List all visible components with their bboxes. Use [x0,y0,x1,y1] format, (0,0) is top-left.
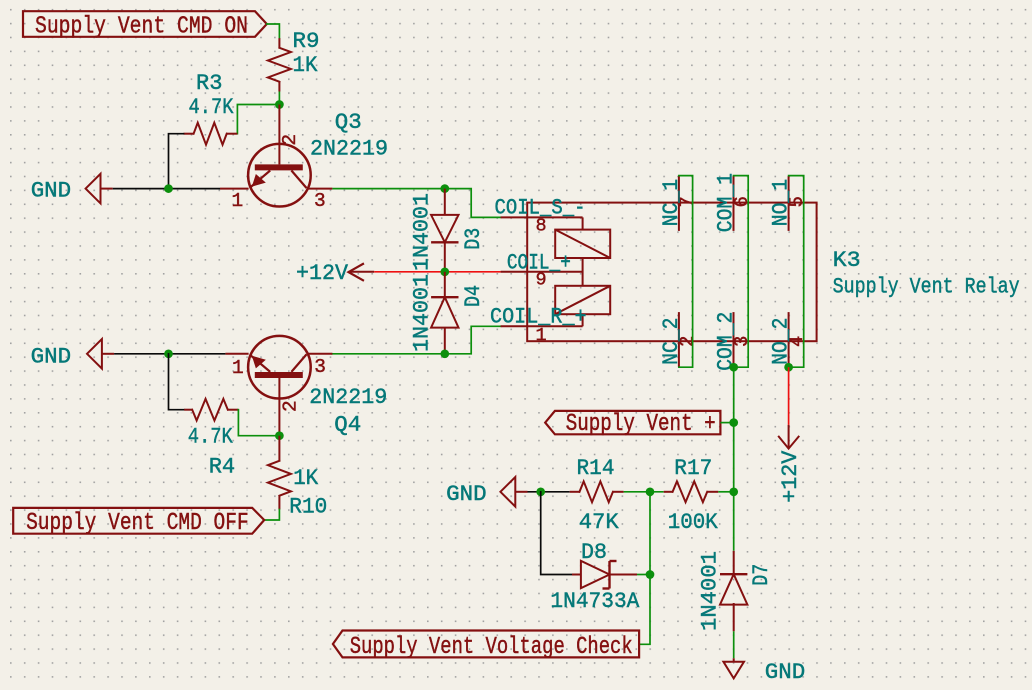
svg-text:D3: D3 [460,228,486,250]
svg-text:K3: K3 [833,247,861,273]
wire GND to Q3 emitter [113,188,220,190]
wire Q3 collector to D3 node [332,188,444,190]
junction node Q3/D3 [440,184,449,193]
wire contact strap COM [734,176,749,368]
svg-text:NC_2: NC_2 [658,318,684,365]
svg-text:D7: D7 [748,564,774,586]
svg-text:GND: GND [31,177,71,203]
wire 'Supply Vent CMD ON' to R9 [267,24,280,38]
zener diode D8 (1N4733A) [550,539,639,614]
junction GND rail lower [164,349,173,358]
relay K3 coil pin 1 (COIL_R_+) [490,304,587,347]
svg-text:GND: GND [31,344,72,370]
hierarchical label 'Supply Vent CMD ON' [23,11,267,40]
wire GND branch to D8 [541,492,572,575]
svg-text:1N4733A: 1N4733A [550,588,639,614]
wire GND to Q4 emitter [114,353,225,355]
wire NO_2 to +12V [788,367,790,425]
resistor R17 [664,455,719,535]
wire R4 to Q4 base node [238,410,279,436]
svg-text:D8: D8 [581,539,607,565]
wire COM_2 rail [733,367,735,551]
relay K3 body [527,203,1019,342]
svg-text:100K: 100K [668,509,718,535]
wire R9 to base node [278,92,280,105]
junction +12V / D3 / D4 [440,267,449,276]
hierarchical label 'Supply Vent CMD OFF' [13,508,264,537]
svg-text:1: 1 [232,190,244,212]
relay K3 contact pin 3 (COM_2) [713,312,753,371]
junction COM_2 / R17 [729,487,738,496]
relay K3 coil winding 1 [555,230,610,258]
wire contact strap NC [679,176,693,368]
wire R14 to R17 [624,491,664,493]
relay K3 coil pin 9 (COIL_+) [501,250,583,291]
power +12V (bottom) [777,425,803,503]
resistor R4 [184,399,238,480]
hierarchical label 'Supply Vent +' [545,411,720,438]
svg-text:2: 2 [280,400,302,412]
junction COM_2 node [729,363,738,372]
relay K3 coil pin 8 (COIL_S_-) [495,195,586,237]
relay K3 coil winding 2 [555,286,610,314]
diode D7 (1N4001) [697,551,774,632]
svg-text:GND: GND [446,481,487,507]
svg-text:R10: R10 [289,494,327,520]
svg-text:3: 3 [314,356,326,378]
relay K3 contact pin 4 (NO_2) [768,312,808,367]
svg-text:Supply Vent CMD OFF: Supply Vent CMD OFF [26,510,249,537]
svg-text:GND: GND [765,659,806,685]
transistor Q4 (2N2219) [225,336,387,437]
wire node to R3 [237,105,279,134]
relay K3 contact pin 7 (NC_1) [658,176,698,231]
svg-text:Q3: Q3 [335,109,362,135]
svg-text:Supply Vent Relay: Supply Vent Relay [833,274,1020,300]
junction GND / D8 branch [536,487,545,496]
svg-text:NO_1: NO_1 [768,179,794,226]
resistor R3 [184,70,238,145]
svg-text:R9: R9 [293,28,320,54]
svg-text:2: 2 [279,134,301,146]
svg-text:1N4001: 1N4001 [697,551,723,631]
svg-text:4.7K: 4.7K [189,94,234,120]
wire Q4 collector to COIL_R pin [332,326,500,354]
resistor R14 [570,455,624,535]
svg-text:3: 3 [314,190,326,212]
svg-text:NC_1: NC_1 [658,179,684,226]
svg-text:2N2219: 2N2219 [310,136,388,162]
wire GND rail to R4 [169,354,185,410]
relay K3 contact pin 2 (NC_2) [658,312,698,367]
svg-text:Supply Vent CMD ON: Supply Vent CMD ON [35,13,248,40]
wire node to COIL_S pin [445,189,501,218]
svg-text:D4: D4 [460,285,486,307]
svg-text:Supply Vent +: Supply Vent + [566,411,716,438]
svg-text:+12V: +12V [296,260,348,286]
wire node to voltage check label [639,492,650,645]
svg-text:COM_2: COM_2 [713,312,739,371]
svg-text:Q4: Q4 [334,411,361,437]
wire D8 to check node [637,574,650,576]
wire contact strap NO [789,176,804,368]
svg-text:COM_1: COM_1 [713,173,739,232]
svg-text:R3: R3 [196,70,223,96]
svg-text:COIL_R_+: COIL_R_+ [490,304,587,330]
svg-text:1: 1 [232,357,244,379]
svg-text:R4: R4 [209,453,236,479]
svg-text:NO_2: NO_2 [768,318,794,365]
wire GND to R14 [528,491,570,493]
junction R14/R17 node [646,487,655,496]
svg-text:COIL_S_-: COIL_S_- [495,195,586,221]
ground GND (row 3) [446,477,527,507]
svg-text:1K: 1K [293,465,318,491]
svg-text:4.7K: 4.7K [188,424,233,450]
svg-text:R14: R14 [577,455,615,481]
resistor R10 [268,436,327,520]
svg-text:Supply Vent Voltage Check: Supply Vent Voltage Check [350,634,633,661]
wire R10 to label [264,510,279,521]
wire +12V rail [374,271,500,273]
transistor Q3 (2N2219) [220,105,388,212]
ground GND (upper) [31,174,113,204]
junction NO_2 node [784,363,793,372]
diode D3 (1N4001) [409,189,487,272]
svg-text:+12V: +12V [777,450,803,502]
wire D7 to GND [733,631,735,658]
wire R17 to COM_2 rail [718,491,733,493]
wire label to COM_2 rail [720,422,733,424]
junction D8 node [646,570,655,579]
power +12V (left) [296,260,374,286]
junction Q4 base node [275,431,284,440]
junction node Q4/D4 [440,349,449,358]
ground GND (bottom) [723,658,805,685]
svg-text:1N4001: 1N4001 [409,193,435,271]
svg-text:COIL_+: COIL_+ [507,250,571,276]
svg-text:2N2219: 2N2219 [309,384,387,410]
wire R3 to GND rail [169,134,184,189]
relay K3 contact pin 6 (COM_1) [713,173,753,232]
junction Q3 base node [275,100,284,109]
relay K3 contact pin 5 (NO_1) [768,176,808,231]
ground GND (row 2) [31,339,115,370]
junction Supply Vent + node [729,418,738,427]
resistor R9 [268,28,320,92]
svg-text:R17: R17 [674,455,712,481]
svg-text:1K: 1K [293,52,318,78]
svg-text:1N4001: 1N4001 [409,274,435,352]
diode D4 (1N4001) [409,272,487,354]
junction GND rail upper [164,184,173,193]
svg-text:47K: 47K [579,509,619,535]
hierarchical label 'Supply Vent Voltage Check' [333,631,639,662]
